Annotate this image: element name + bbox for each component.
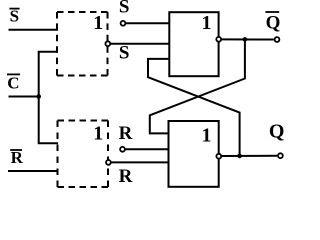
junction on Q-bar line [243, 37, 248, 42]
input label S-bar [9, 7, 19, 26]
wire S terminal to gate DD1 [126, 22, 170, 24]
inverter D2 (dashed box) [58, 121, 109, 188]
wire S-bar to inverter D1 [9, 29, 59, 31]
svg-text:Q: Q [266, 13, 281, 34]
svg-text:C: C [7, 74, 19, 93]
svg-text:1: 1 [202, 12, 212, 34]
terminal S (open circle) [121, 21, 126, 26]
wire DD2 output to Q terminal [222, 155, 278, 157]
output bubble of D1 [105, 41, 110, 46]
cross wire from Q junction to DD1 input [148, 59, 240, 156]
cross wire from Q-bar junction to DD2 input [150, 39, 245, 133]
terminal Q-bar (open circle) [275, 37, 280, 42]
wire D2 bubble to gate DD2 [111, 161, 168, 163]
label Q-bar [265, 12, 280, 34]
svg-text:1: 1 [202, 124, 212, 146]
svg-text:Q: Q [269, 121, 285, 143]
wire C vertical branch [39, 52, 58, 143]
wire R-bar to inverter D2 [8, 170, 58, 172]
gate DD1 (top NAND, solid box) [169, 12, 218, 76]
inverter D1 (dashed box) [57, 12, 108, 76]
wire D1 bubble to gate DD1 [111, 43, 170, 45]
svg-text:R: R [119, 123, 133, 144]
input label C-bar [7, 74, 20, 93]
wire R terminal to gate DD2 [125, 148, 168, 150]
svg-text:R: R [11, 148, 24, 167]
svg-text:S: S [10, 7, 19, 26]
svg-text:S: S [119, 43, 130, 64]
output bubble of DD1 [216, 37, 221, 42]
junction on Q line [237, 154, 242, 159]
svg-text:1: 1 [93, 12, 103, 34]
input label R-bar [10, 148, 23, 167]
junction on C line [36, 94, 41, 99]
output bubble of DD2 [216, 154, 221, 159]
wire DD1 output to Q-bar terminal [222, 38, 274, 40]
output bubble of D2 [106, 160, 111, 165]
svg-text:S: S [119, 0, 130, 18]
svg-text:1: 1 [93, 122, 103, 144]
gate DD2 (bottom NAND, solid box) [169, 121, 219, 187]
svg-text:R: R [119, 166, 133, 187]
wire C-bar [9, 96, 39, 98]
terminal R (open circle) [120, 147, 125, 152]
terminal Q (open circle) [278, 153, 283, 158]
